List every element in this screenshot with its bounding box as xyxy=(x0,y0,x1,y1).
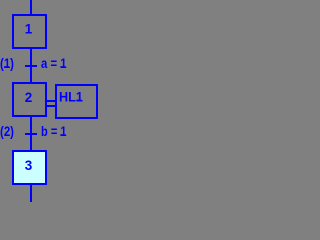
action link lower line xyxy=(45,105,57,107)
svg-text:3: 3 xyxy=(25,158,33,173)
action link upper line xyxy=(45,100,57,102)
svg-text:2: 2 xyxy=(25,90,33,105)
transition T2 bar xyxy=(25,133,37,135)
transition label (1) xyxy=(0,56,14,71)
wire bottom from step 3 xyxy=(30,185,32,202)
svg-text:(2): (2) xyxy=(0,124,14,139)
svg-text:b = 1: b = 1 xyxy=(41,124,67,139)
step 3 (active, cyan fill) xyxy=(13,151,46,184)
action box HL1 xyxy=(56,85,97,118)
condition b = 1 xyxy=(41,124,67,139)
wire step1 to step2 xyxy=(30,49,32,82)
wire step2 to step3 xyxy=(30,117,32,150)
step 2 xyxy=(13,83,46,116)
condition a = 1 xyxy=(41,56,67,71)
svg-text:a = 1: a = 1 xyxy=(41,56,67,71)
wire top into step 1 xyxy=(30,0,32,15)
svg-text:HL1: HL1 xyxy=(59,89,83,104)
transition T1 bar xyxy=(25,65,37,67)
step 1 xyxy=(13,15,46,48)
svg-text:1: 1 xyxy=(25,21,33,36)
svg-text:(1): (1) xyxy=(0,56,14,71)
